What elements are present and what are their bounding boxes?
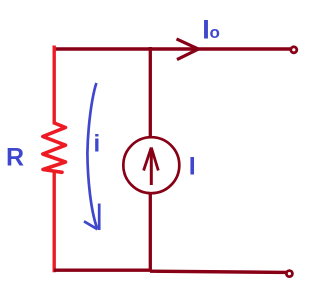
resistor R (zigzag) (43, 124, 66, 173)
wire: left vertical upper segment (resistor branch) (53, 46, 56, 125)
current direction arrowhead Io on top wire (177, 39, 199, 60)
current source U1: internal arrow shaft (150, 149, 153, 186)
wire: left vertical lower segment (resistor branch) (53, 172, 56, 273)
svg-text:i: i (94, 131, 101, 158)
wire: bottom horizontal left segment (54, 269, 152, 272)
node: output terminal top (open circle) (291, 47, 297, 53)
current annotation i: curved arrow body (87, 83, 97, 229)
current source U1: circle (123, 137, 179, 193)
wire: bottom horizontal right segment to output terminal (150, 271, 287, 272)
svg-text:I: I (189, 153, 196, 181)
current annotation i: arrowhead vertical barb (98, 204, 101, 231)
wire: middle vertical from top wire to current source (149, 47, 152, 138)
svg-text:o: o (210, 23, 220, 42)
wire: middle vertical from current source to bottom wire (149, 193, 152, 272)
node: output terminal bottom (open circle) (286, 271, 292, 277)
svg-text:R: R (6, 144, 24, 172)
current annotation i: arrowhead horizontal barb (84, 221, 98, 229)
wire: top horizontal from node A to output terminal (54, 47, 291, 51)
current source U1: internal arrow right barb (151, 148, 158, 171)
current source U1: internal arrow left barb (144, 148, 152, 171)
